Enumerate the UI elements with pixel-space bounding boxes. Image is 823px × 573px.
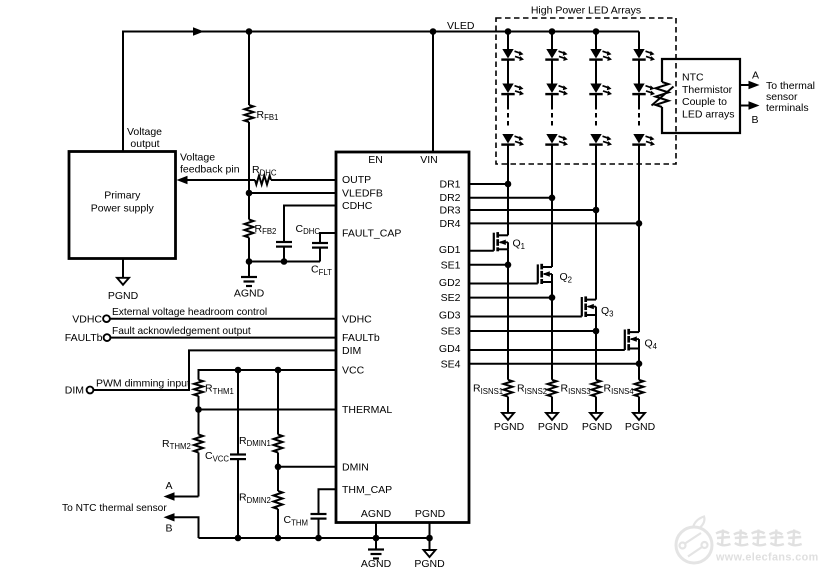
svg-text:External voltage headroom cont: External voltage headroom control [112,307,267,318]
wire DR3 [469,209,596,211]
node rail/PGND pin [426,535,433,542]
wire DMIN pin [278,466,336,468]
node VCC/CVCC [235,367,242,374]
LED D41 [632,49,655,61]
node SE1 / column 1 [505,262,512,269]
wire THERMAL pin [199,409,337,411]
node: VLED rail / LED column 2 [549,28,556,35]
svg-text:OUTP: OUTP [342,174,371,186]
wire SE4 [469,363,639,365]
label RTHM1 [205,383,234,396]
svg-text:output: output [130,138,159,150]
wire THM_CAP pin [319,489,337,514]
terminal FAULTb [104,334,111,341]
svg-text:High Power LED Arrays: High Power LED Arrays [531,5,641,17]
svg-text:feedback pin: feedback pin [180,163,240,175]
svg-text:AGND: AGND [234,288,265,300]
wire: local AGND rail (RFB2/CDHC/CFLT) [249,261,320,263]
svg-text:EN: EN [368,154,383,166]
svg-text:Voltage: Voltage [180,151,215,163]
node DR4 / column 4 [636,220,643,227]
svg-text:GD3: GD3 [439,310,461,322]
resistor RTHM2 [194,410,203,497]
thermistor (NTC) on box edge [652,82,674,107]
svg-text:www.elecfans.com: www.elecfans.com [715,551,819,563]
label PGND (RISNS4) [625,421,656,433]
wire LED column 2 lower [551,145,553,267]
svg-text:SE3: SE3 [441,326,461,338]
label DIM terminal [65,385,84,397]
pin label VCC [342,365,365,377]
wire FAULTb [111,337,337,339]
wire LED column 2 upper [551,32,553,106]
svg-text:NTC: NTC [682,72,704,84]
svg-text:DIM: DIM [65,385,84,397]
svg-text:DMIN: DMIN [342,461,369,473]
label PWM dimming input [96,378,190,390]
watermark elecfans logo [676,517,819,564]
svg-text:PGND: PGND [415,508,446,520]
svg-text:terminals: terminals [766,102,809,114]
svg-text:PGND: PGND [582,421,613,433]
wire LED column 1 upper [507,32,509,106]
LED D31 [589,49,612,61]
label Q3 [601,305,614,318]
wire to voltage feedback pin with arrow [177,176,256,184]
LED D42 [632,84,655,96]
label A (left) [165,480,172,492]
wire DR1 [469,183,508,185]
wire GD3 [469,316,582,318]
pin label GD3 [439,310,461,322]
svg-text:PGND: PGND [538,421,569,433]
svg-text:VCC: VCC [342,365,365,377]
svg-text:B: B [165,523,172,535]
label PGND (RISNS3) [582,421,613,433]
svg-text:VLED: VLED [447,20,475,32]
pin label DMIN [342,461,369,473]
label PGND (IC bottom) [414,558,445,570]
label PGND (RISNS2) [538,421,569,433]
svg-text:CDHC: CDHC [342,200,373,212]
label A (NTC) [752,70,759,82]
wire GD1 [469,250,494,252]
node rail/CVCC [235,535,242,542]
node SE3 / column 3 [593,328,600,335]
label To NTC thermal sensor [62,503,167,514]
pin label GD2 [439,277,461,289]
wire to NTC sensor B with arrow [164,513,199,538]
wire: primary supply output up and right to VLED rail [123,32,639,152]
wire column 2 to RISNS2 [551,282,553,380]
svg-text:PGND: PGND [414,558,445,570]
capacitor CVCC [230,370,246,538]
pin label VDHC [342,313,372,325]
node DR3 / column 3 [593,207,600,214]
svg-text:VDHC: VDHC [72,313,102,325]
pin label PGND (IC) [415,508,446,520]
NTC box outline [662,59,740,133]
svg-text:Voltage: Voltage [127,126,162,138]
LED D32 [589,84,612,96]
wire: bottom AGND rail [199,537,430,539]
svg-text:DR2: DR2 [439,192,460,204]
wire LED column 1 lower [507,145,509,236]
wire LED column 4 upper [638,32,640,106]
node SE4 / column 4 [636,360,643,367]
label CVCC [205,450,229,463]
LED D23 [545,134,568,146]
svg-text:PGND: PGND [625,421,656,433]
wire NTC A with arrow [740,81,760,89]
label External voltage headroom control [112,307,267,318]
resistor RDHC [255,176,271,185]
node rail/CDHC [281,258,288,265]
node rail/RFB2 [246,258,253,265]
pin label SE3 [441,326,461,338]
node: VLED rail / VIN junction [430,28,437,35]
svg-text:VLEDFB: VLEDFB [342,188,383,200]
capacitor CDHC [276,242,292,262]
wire NTC B with arrow [740,101,760,109]
resistor RDMIN1 [274,370,283,467]
pin label THM_CAP [342,484,392,496]
pin label EN [368,154,383,166]
svg-text:DR1: DR1 [439,179,460,191]
wire DIM [94,350,337,390]
label RDMIN2 [239,492,271,505]
node: VLED rail / LED column 3 [593,28,600,35]
label FAULTb terminal [65,332,103,344]
resistor RISNS4 [635,380,644,413]
wire LED column 3 upper [595,32,597,106]
label RISNS1 [473,383,503,396]
svg-text:FAULT_CAP: FAULT_CAP [342,228,401,240]
pin label GD1 [439,244,461,256]
label CTHM [284,514,308,527]
node rail/RDMIN2 [275,535,282,542]
svg-text:VIN: VIN [420,154,438,166]
wire PGND pin to pgnd [424,523,436,558]
svg-text:A: A [165,480,172,492]
label RISNS4 [604,383,635,396]
wire column 4 to RISNS4 [638,349,640,380]
label High Power LED Arrays [531,5,641,17]
label To thermal sensor terminals [766,80,815,114]
wire SE3 [469,330,596,332]
IC U1 (LED driver) [336,152,469,523]
wire LED column 4 dashed continuation [638,105,640,129]
wire column 1 to RISNS1 [507,249,509,379]
transistor Q4 [625,329,639,351]
transistor Q1 [494,232,508,251]
svg-text:THM_CAP: THM_CAP [342,484,392,496]
arrow on VLED rail (current direction) [193,27,204,35]
wire SE1 [469,264,508,266]
label AGND (IC bottom) [361,558,392,570]
svg-text:GD2: GD2 [439,277,461,289]
label RISNS3 [561,383,591,396]
label NTC Thermistor Couple to LED arrays [682,72,735,121]
svg-text:PGND: PGND [494,421,525,433]
label Q2 [560,271,573,284]
wire DR4 [469,222,639,224]
resistor RISNS1 [504,380,513,413]
label CFLT [311,264,332,277]
capacitor CTHM [311,514,327,538]
label RDMIN1 [239,435,271,448]
svg-text:DR3: DR3 [439,205,460,217]
label AGND (divider) [234,288,265,300]
pgnd RISNS3 [590,413,602,420]
label PGND (primary) [108,290,139,302]
svg-text:PGND: PGND [108,290,139,302]
pin label GD4 [439,343,461,355]
label CDHC [296,223,321,236]
svg-text:Thermistor: Thermistor [682,84,733,96]
node DMIN/RDMIN1/RDMIN2 [275,464,282,471]
svg-text:Power supply: Power supply [91,203,155,215]
transistor Q2 [538,264,552,284]
svg-text:THERMAL: THERMAL [342,404,392,416]
wire LED column 4 lower [638,145,640,333]
node THERMAL/RTHM1/RTHM2 [195,406,202,413]
label Voltage output [127,126,162,150]
label VDHC terminal [72,313,102,325]
wire LED column 1 dashed continuation [507,105,509,129]
LED D11 [501,49,524,61]
terminal VDHC [103,315,110,322]
primary power supply box [69,152,176,259]
wire GD2 [469,283,538,285]
wire FAULT_CAP pin [320,233,336,243]
pin label VIN [420,154,438,166]
label Q4 [645,338,658,351]
label Primary Power supply [91,190,155,215]
svg-text:GD1: GD1 [439,244,461,256]
wire CDHC pin [284,206,336,243]
svg-text:AGND: AGND [361,558,392,570]
svg-text:Couple to: Couple to [682,96,727,108]
pin label DIM [342,345,361,357]
pin label AGND (IC) [361,508,392,520]
svg-text:AGND: AGND [361,508,392,520]
label PGND (RISNS1) [494,421,525,433]
wire: VIN pin [432,32,434,153]
wire AGND pin to ground [368,523,384,559]
LED D22 [545,84,568,96]
node SE2 / column 2 [549,294,556,301]
resistor RISNS2 [548,380,557,413]
LED D33 [589,134,612,146]
pin label FAULT_CAP [342,228,401,240]
node rail/AGND pin [373,535,380,542]
label RDHC [252,164,277,177]
wire SE2 [469,297,552,299]
pin label DR3 [439,205,460,217]
wire VLEDFB [249,192,336,194]
pgnd below primary supply [117,259,129,285]
svg-text:PWM dimming input: PWM dimming input [96,378,190,390]
label RFB1 [257,109,279,122]
label RISNS2 [517,383,547,396]
wire LED column 3 lower [595,145,597,300]
dashed box: High Power LED Arrays [496,18,676,164]
pin label FAULTb [342,332,380,344]
pin label VLEDFB [342,188,383,200]
label RFB2 [255,223,277,236]
wire OUTP pin [271,179,336,181]
svg-text:SE4: SE4 [441,358,461,370]
pin label DR2 [439,192,460,204]
ground AGND (divider) [241,262,257,287]
svg-text:LED arrays: LED arrays [682,109,735,121]
svg-text:DR4: DR4 [439,218,460,230]
label B (left) [165,523,172,535]
label VLED [447,20,475,32]
capacitor CFLT [312,243,328,262]
svg-text:SE1: SE1 [441,259,461,271]
node DR2 / column 2 [549,195,556,202]
node DR1 / column 1 [505,181,512,188]
svg-text:FAULTb: FAULTb [342,332,380,344]
node VLEDFB / RFB1 / RFB2 junction [246,190,253,197]
LED D13 [501,134,524,146]
svg-text:A: A [752,70,759,82]
terminal DIM [87,387,94,394]
node: VLED rail / LED column 1 [505,28,512,35]
label Fault acknowledgement output [112,326,251,337]
svg-text:B: B [751,114,758,126]
LED D12 [501,84,524,96]
pin label SE2 [441,292,461,304]
transistor Q3 [582,296,596,317]
svg-text:VDHC: VDHC [342,313,372,325]
resistor RISNS3 [592,380,601,413]
svg-text:SE2: SE2 [441,292,461,304]
resistor RFB1 [245,32,254,194]
pin label OUTP [342,174,371,186]
pin label THERMAL [342,404,392,416]
svg-text:Fault acknowledgement output: Fault acknowledgement output [112,326,251,337]
resistor RFB2 [245,193,254,262]
node VCC/RDMIN1 [275,367,282,374]
svg-text:Primary: Primary [104,190,141,202]
svg-text:DIM: DIM [342,345,361,357]
wire VCC rail [199,370,337,380]
wire to NTC sensor A with arrow [164,492,199,500]
wire GD4 [469,349,625,351]
LED D43 [632,134,655,146]
wire column 3 to RISNS3 [595,315,597,380]
label B (NTC) [751,114,758,126]
svg-text:GD4: GD4 [439,343,461,355]
pgnd RISNS2 [546,413,558,420]
svg-text:FAULTb: FAULTb [65,332,103,344]
pin label SE1 [441,259,461,271]
resistor RDMIN2 [274,467,283,538]
label RTHM2 [162,438,191,451]
pin label DR4 [439,218,460,230]
wire LED column 3 dashed continuation [595,105,597,129]
wire VDHC [110,318,336,320]
node rail/CTHM [315,535,322,542]
wire LED column 2 dashed continuation [551,105,553,129]
node: VLED rail / RFB1 junction [246,28,253,35]
resistor RTHM1 [194,380,203,410]
LED D21 [545,49,568,61]
pgnd RISNS1 [502,413,514,420]
label Q1 [513,238,526,251]
label Voltage feedback pin [180,151,240,175]
wire DR2 [469,197,552,199]
pin label CDHC [342,200,373,212]
pin label SE4 [441,358,461,370]
pin label DR1 [439,179,460,191]
svg-text:To NTC thermal sensor: To NTC thermal sensor [62,503,167,514]
pgnd RISNS4 [633,413,645,420]
